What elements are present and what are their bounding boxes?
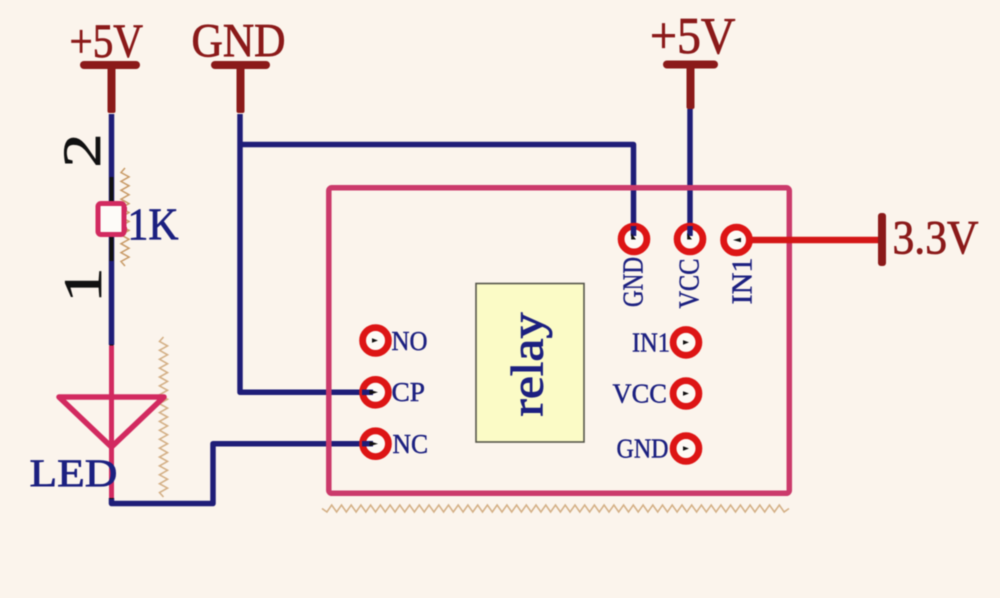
svg-text:NC: NC <box>393 429 429 459</box>
svg-text:GND: GND <box>192 15 286 68</box>
svg-text:IN1: IN1 <box>728 258 759 305</box>
svg-text:VCC: VCC <box>613 379 668 409</box>
svg-text:+5V: +5V <box>70 15 144 68</box>
svg-text:LED: LED <box>30 452 118 495</box>
svg-text:2: 2 <box>53 133 113 167</box>
svg-text:+5V: +5V <box>650 8 736 65</box>
svg-text:GND: GND <box>617 434 669 464</box>
svg-text:1K: 1K <box>128 200 179 250</box>
svg-text:VCC: VCC <box>675 259 706 309</box>
svg-text:CP: CP <box>392 377 426 407</box>
svg-text:1: 1 <box>53 267 113 303</box>
svg-text:IN1: IN1 <box>632 328 670 358</box>
svg-text:NO: NO <box>392 326 428 356</box>
svg-text:GND: GND <box>619 257 650 307</box>
svg-text:3.3V: 3.3V <box>893 212 979 265</box>
svg-text:relay: relay <box>502 313 553 417</box>
